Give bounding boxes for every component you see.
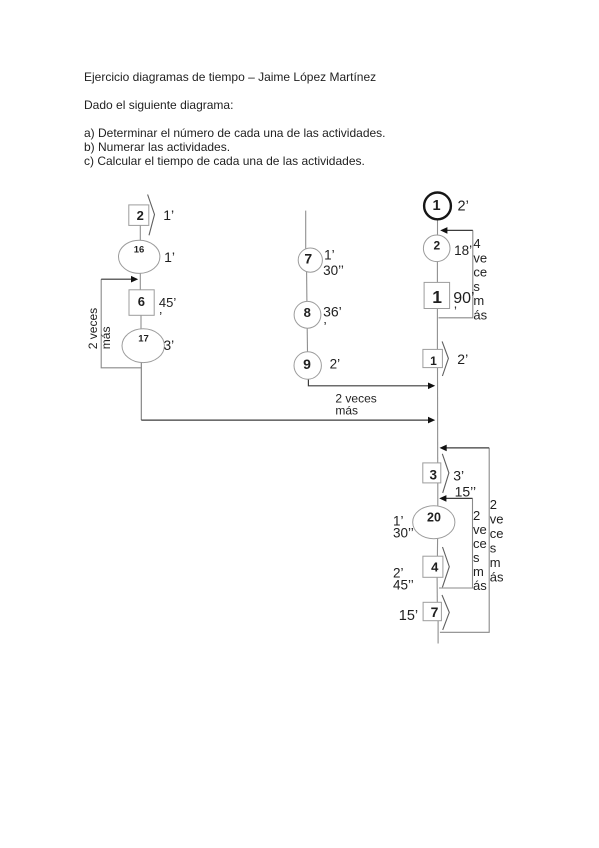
operation ellipse 16 — [119, 240, 160, 273]
wire flag4 to flag7 — [436, 577, 438, 602]
arrow from op9 into main line — [308, 379, 435, 389]
svg-text:s: s — [473, 550, 480, 565]
operation circle 9 — [294, 352, 321, 379]
label 2 veces mas (outer wrapped column) — [490, 497, 504, 585]
label 1' 30'' (op 7) — [323, 247, 344, 278]
svg-text:8: 8 — [304, 305, 311, 320]
transport flag 1 — [423, 341, 449, 376]
svg-text:30’’: 30’’ — [323, 263, 344, 278]
svg-text:2: 2 — [490, 497, 497, 512]
inspection square 1 — [424, 282, 450, 308]
svg-text:más: más — [335, 403, 358, 417]
svg-text:’: ’ — [454, 304, 457, 319]
arrow outer loop into main line above flag3 — [440, 445, 490, 452]
inspection square 6 — [129, 290, 154, 316]
transport flag 3 — [423, 454, 449, 493]
label 2 veces (vertical) — [86, 308, 100, 349]
svg-text:3: 3 — [429, 468, 437, 483]
svg-text:3’: 3’ — [164, 338, 175, 353]
label 15' (flag 7) — [399, 608, 418, 624]
arrow inner loop into main line above op20 — [439, 495, 472, 502]
wire flag1 to flag3 — [437, 368, 439, 463]
svg-text:17: 17 — [138, 333, 149, 344]
svg-text:ás: ás — [490, 570, 504, 585]
label 1' (flag 2) — [163, 207, 174, 223]
operation ellipse 20 — [413, 506, 455, 539]
svg-text:ce: ce — [490, 526, 504, 541]
svg-text:2’: 2’ — [457, 351, 468, 367]
wire flag3 to op20 — [437, 483, 439, 506]
svg-text:6: 6 — [138, 294, 145, 309]
svg-text:2’: 2’ — [330, 356, 341, 371]
svg-text:1: 1 — [430, 354, 437, 368]
outer loop 2 veces mas (below flag7) — [440, 448, 489, 632]
operation circle 7 — [298, 248, 322, 272]
label 18' (op 2) — [454, 243, 472, 258]
wire op2 to insp1 — [436, 262, 438, 283]
svg-text:2: 2 — [434, 239, 441, 253]
transport flag 4 — [423, 547, 449, 587]
label 45' — [159, 295, 176, 324]
svg-text:45’’: 45’’ — [393, 577, 414, 592]
svg-text:2’: 2’ — [458, 198, 469, 214]
svg-text:7: 7 — [304, 251, 312, 267]
svg-text:m: m — [473, 564, 484, 579]
wire op1 to op2 — [437, 219, 439, 235]
transport flag 7 — [423, 595, 449, 630]
wire below flag7 — [437, 621, 439, 644]
label 2' (op 9) — [330, 356, 341, 371]
svg-text:4: 4 — [431, 559, 439, 574]
label 4 veces mas (wrapped column) — [473, 236, 487, 323]
svg-text:ce: ce — [473, 265, 487, 280]
loop 4 veces mas (right of insp1) — [439, 230, 473, 317]
svg-text:s: s — [490, 541, 497, 556]
svg-text:36’: 36’ — [323, 304, 342, 320]
svg-text:3’: 3’ — [453, 468, 464, 484]
label 36' (op 8) — [323, 304, 342, 335]
svg-text:ás: ás — [473, 308, 487, 323]
operation circle 1 (start, bold) — [424, 193, 451, 220]
inner loop 2 veces mas (below flag4) — [439, 498, 473, 588]
svg-text:4: 4 — [473, 236, 480, 251]
arrow from op17 into main line — [141, 417, 435, 424]
operation circle 8 — [294, 301, 321, 328]
label 2' (op 1) — [458, 198, 469, 214]
label 2 veces mas (middle) — [335, 391, 376, 417]
arrow into wire above insp6 — [101, 276, 138, 283]
svg-text:ce: ce — [473, 536, 487, 551]
label 2 veces mas (inner wrapped column) — [473, 508, 487, 593]
wire op7 to op8 — [306, 272, 308, 302]
svg-text:ve: ve — [490, 512, 504, 527]
label 2' (flag 1) — [457, 351, 468, 367]
wire op8 to op9 — [306, 328, 308, 352]
svg-text:7: 7 — [431, 604, 439, 620]
svg-text:1’: 1’ — [324, 247, 335, 262]
label 90' (insp 1) — [453, 290, 474, 318]
svg-text:18’: 18’ — [454, 243, 472, 258]
svg-text:2: 2 — [137, 208, 144, 223]
label 2' 45'' (flag 4) — [393, 565, 414, 592]
svg-text:ve: ve — [473, 522, 487, 537]
wire flag2 to op16 — [139, 225, 141, 240]
svg-text:9: 9 — [303, 356, 311, 372]
label 1' (op 16) — [164, 249, 175, 265]
svg-text:m: m — [473, 293, 484, 308]
svg-text:más: más — [99, 327, 113, 350]
svg-text:16: 16 — [134, 244, 145, 255]
wire left-loop 2 veces mas — [101, 279, 141, 368]
svg-text:1: 1 — [433, 198, 441, 214]
label 1' 30'' (op 20) — [393, 513, 414, 540]
svg-text:30’’: 30’’ — [393, 525, 414, 540]
svg-text:1: 1 — [432, 287, 442, 307]
svg-text:’: ’ — [159, 309, 162, 324]
operation ellipse 17 — [122, 329, 164, 363]
svg-text:ve: ve — [473, 250, 487, 265]
svg-text:45’: 45’ — [159, 295, 176, 310]
svg-text:15’’: 15’’ — [455, 484, 477, 500]
wire hanging top of middle column — [305, 211, 307, 249]
svg-text:1’: 1’ — [164, 249, 175, 265]
wire op16 to insp6 — [139, 273, 141, 290]
svg-text:2 veces: 2 veces — [86, 308, 100, 349]
svg-text:15’: 15’ — [399, 608, 418, 624]
svg-text:1’: 1’ — [163, 207, 174, 223]
svg-text:2: 2 — [473, 508, 480, 523]
wire insp1 to flag1 — [436, 309, 438, 350]
svg-text:20: 20 — [427, 510, 441, 524]
wire op17 down — [140, 362, 142, 420]
label 3' 15'' (flag 3) — [453, 468, 476, 500]
svg-text:’: ’ — [324, 319, 327, 334]
operation circle 2 — [423, 235, 450, 262]
label 3' (op 17) — [164, 338, 175, 353]
transport flag 2 — [129, 195, 155, 236]
arrow 4-veces loop into wire op1-op2 — [440, 227, 473, 234]
wire op20 to flag4 — [436, 539, 438, 557]
svg-text:ás: ás — [473, 578, 487, 593]
label mas (vertical) — [99, 327, 113, 350]
svg-text:m: m — [490, 555, 501, 570]
wire insp6 to op17 — [140, 315, 142, 329]
